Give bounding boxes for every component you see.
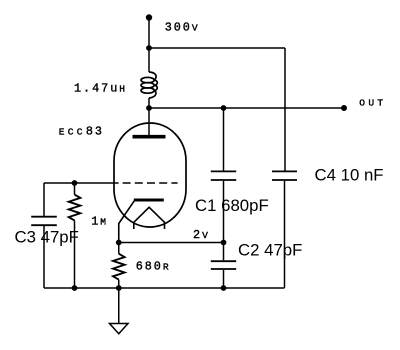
tube U1 envelope (ECC83 triode) [114,123,186,227]
heater filament (inverted V with pins) [134,207,165,229]
grid (dashed) [123,182,178,184]
wire: rail to ground symbol [118,288,120,324]
wire: cathode node to 2V node [119,242,224,244]
wire: anode lead [148,108,150,136]
svg-text:C2 47pF: C2 47pF [238,240,302,259]
ground [110,324,129,334]
wire: top horizontal rail to C4 branch [149,47,285,49]
junction: cathode node [116,240,122,246]
junction: 1M bottom on rail [72,285,78,291]
svg-text:1M: 1M [91,214,109,228]
junction: top node (above L1) [146,45,152,51]
terminal OUT (dot) [341,105,347,111]
svg-text:OUT: OUT [359,97,386,108]
wire: top node into inductor [148,48,150,72]
cathode (bar) [134,199,164,202]
wire: inductor bottom to anode node [148,98,150,108]
capacitor C3 47pF [31,183,57,288]
resistor R 1M [69,183,81,288]
power terminal 300V (dot) [146,14,152,20]
inductor L1 1.47uH [141,72,157,98]
svg-text:300V: 300V [165,20,201,34]
wire: bottom ground rail [44,287,285,289]
svg-text:C4 10 nF: C4 10 nF [315,166,384,185]
wire: 300V terminal to top junction [148,18,150,49]
junction: grid node (top of R 1M) [72,180,78,186]
svg-text:2V: 2V [193,228,211,242]
capacitor C2 47pF [211,243,236,289]
wire: OUT line from anode node to OUT terminal [149,107,344,109]
svg-text:C1 680pF: C1 680pF [195,196,269,215]
wire: right vertical drop from top rail to C4 [284,48,286,171]
capacitor C4 10nF [272,171,297,288]
capacitor C1 680pF [211,108,236,243]
svg-text:1.47uH: 1.47uH [74,81,128,95]
wire: grid lead to left [44,182,119,184]
junction: 680R bottom on rail [116,285,122,291]
wire: cathode lead (diagonal + vertical) [119,201,135,243]
junction: C2 bottom on rail [221,285,227,291]
svg-text:C3 47pF: C3 47pF [15,228,79,247]
svg-text:680R: 680R [136,259,172,273]
svg-text:ECC83: ECC83 [59,125,104,139]
anode (plate bar) [133,135,166,139]
junction: anode/OUT node below L1 [146,105,152,111]
resistor R 680R [113,243,125,289]
junction: 2V node [221,240,227,246]
junction: C1 top on OUT line [221,105,227,111]
